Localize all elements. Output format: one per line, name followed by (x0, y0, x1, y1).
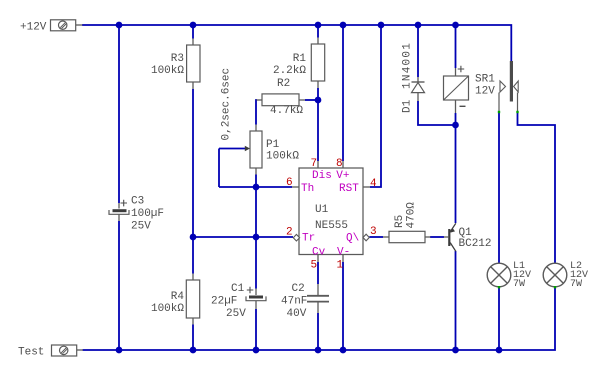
svg-text:C1: C1 (231, 283, 245, 295)
relay SR1 coil (444, 68, 469, 113)
svg-text:1: 1 (337, 260, 344, 272)
terminal +12V (51, 20, 83, 31)
junction Tr net x193 (190, 234, 197, 241)
svg-text:40V: 40V (287, 308, 307, 320)
svg-text:Th: Th (301, 183, 314, 195)
svg-text:+12V: +12V (20, 22, 47, 34)
junction top rail x318 (315, 22, 322, 29)
junction bottom rail x256 (253, 347, 260, 354)
wire RST pin 4 to rail (370, 25, 381, 187)
junction bottom rail x499 (496, 347, 503, 354)
wire R3 top to rail (192, 25, 194, 39)
junction top rail x119 (116, 22, 123, 29)
svg-text:6: 6 (286, 177, 293, 189)
wire R5 to Q1 base (430, 236, 444, 238)
svg-text:25V: 25V (226, 308, 246, 320)
svg-text:D1: D1 (402, 99, 414, 113)
resistor R2 (257, 94, 306, 106)
svg-text:C3: C3 (131, 196, 144, 208)
svg-text:8: 8 (336, 158, 343, 170)
svg-text:U1: U1 (315, 204, 329, 216)
svg-text:Test: Test (18, 347, 44, 359)
wire R4 bottom (192, 325, 194, 351)
svg-text:25V: 25V (131, 221, 151, 233)
svg-text:100kΩ: 100kΩ (266, 151, 299, 163)
svg-text:NE555: NE555 (315, 220, 348, 232)
svg-text:C2: C2 (292, 283, 305, 295)
wire D1 bottom to coil node (418, 101, 456, 125)
wire R2 left to P1 top (256, 100, 257, 125)
svg-text:7W: 7W (570, 279, 582, 290)
wire R4 top (192, 237, 194, 274)
resistor R5 (383, 231, 431, 242)
potentiometer P1 wiper arrow (245, 146, 250, 151)
junction bottom rail x343 (340, 347, 347, 354)
capacitor C1 (electrolytic) (246, 289, 266, 310)
wire left rail lower (C3 to Test rail) (118, 221, 120, 350)
junction top rail x455 (452, 22, 459, 29)
svg-text:BC212: BC212 (459, 238, 492, 250)
wire NC contact to L1 (498, 112, 500, 263)
potentiometer P1 (250, 125, 262, 175)
svg-text:SR1: SR1 (475, 74, 495, 86)
lamp L1 (487, 263, 511, 287)
connection mark left contact (498, 111, 500, 113)
capacitor C1 plus sign (247, 287, 254, 294)
svg-text:Tr: Tr (302, 233, 315, 245)
connection mark right contact (516, 111, 518, 113)
relay coil plus sign (458, 66, 465, 73)
svg-text:0,2sec.6sec: 0,2sec.6sec (221, 68, 233, 141)
wire Th net horizontal (219, 186, 292, 188)
lamp L2 (543, 263, 567, 287)
junction bottom rail x455 (452, 347, 459, 354)
svg-text:R5: R5 (394, 215, 406, 228)
pin 5 stub (317, 255, 319, 263)
transistor Q1 BC212 (444, 223, 456, 251)
svg-text:22µF: 22µF (211, 296, 237, 308)
svg-text:100µF: 100µF (131, 208, 164, 220)
relay contact bar (510, 61, 513, 102)
junction top rail x418 (415, 22, 422, 29)
svg-text:RST: RST (339, 183, 359, 195)
svg-text:47nF: 47nF (281, 296, 307, 308)
wire P1 wiper down (218, 149, 220, 188)
wire P1 wiper horizontal (219, 148, 246, 150)
diode D1 1N4001 (412, 77, 425, 101)
svg-text:2.2kΩ: 2.2kΩ (273, 65, 306, 77)
wire coil top (455, 25, 457, 68)
svg-text:4: 4 (370, 178, 377, 190)
relay contact right triangle (514, 81, 519, 92)
wire R1 bottom to pin 7 (317, 88, 319, 161)
wire Q output to R5 (369, 236, 383, 238)
svg-text:R2: R2 (277, 78, 290, 90)
junction Th net x256 (253, 184, 260, 191)
terminal Test (52, 345, 84, 356)
svg-text:7: 7 (311, 158, 318, 170)
resistor R4 (186, 274, 199, 325)
pin 2 diamond (293, 234, 299, 241)
wire Tr net to C1 (255, 237, 257, 289)
svg-text:100kΩ: 100kΩ (151, 303, 184, 315)
relay contact right lead (517, 93, 519, 112)
junction R2-R1 node (315, 97, 322, 104)
svg-text:R3: R3 (171, 53, 184, 65)
connection mark L1 (498, 286, 500, 288)
wire C1 bottom (255, 309, 257, 350)
relay contact left lead (498, 93, 500, 112)
svg-text:3: 3 (370, 226, 377, 238)
pin 3 diamond (363, 234, 369, 241)
wire Tr net horizontal (193, 236, 293, 238)
svg-text:Q\: Q\ (346, 233, 359, 245)
junction top rail x343 (340, 22, 347, 29)
wire Q1 collector down (455, 251, 457, 350)
junction Tr net x256 (253, 234, 260, 241)
wire C2 bottom (317, 313, 319, 350)
resistor R1 (311, 38, 324, 89)
svg-text:Cv: Cv (312, 247, 326, 259)
svg-text:2: 2 (286, 227, 293, 239)
IC U1 NE555 body (299, 168, 363, 255)
svg-text:V+: V+ (336, 170, 349, 182)
svg-text:P1: P1 (266, 139, 280, 151)
wire R3 bottom to Tr net (192, 89, 194, 237)
pin 1 stub (342, 255, 344, 263)
wire NO contact to L2 (518, 112, 556, 263)
wire coil bottom to Q1 emitter (455, 113, 457, 223)
pin 7 stub (317, 161, 319, 168)
svg-text:470Ω: 470Ω (406, 202, 418, 229)
junction top rail x193 (190, 22, 197, 29)
wire P1 bottom to Th net (255, 175, 257, 188)
svg-text:R1: R1 (293, 53, 307, 65)
svg-text:R4: R4 (171, 291, 185, 303)
capacitor C3 plus sign (121, 200, 128, 207)
pin 6 stub (292, 186, 299, 188)
junction bottom rail x318 (315, 347, 322, 354)
capacitor C2 (film) (307, 284, 329, 313)
svg-text:100kΩ: 100kΩ (151, 65, 184, 77)
relay contact left triangle (500, 81, 506, 92)
wire R2 right to R1 column (305, 99, 318, 101)
wire Th to Tr link (255, 187, 257, 237)
svg-text:12V: 12V (475, 86, 495, 98)
junction bottom rail x119 (116, 347, 123, 354)
wire +12V top rail (82, 25, 511, 61)
svg-text:1N4001: 1N4001 (402, 42, 414, 89)
svg-text:Dis: Dis (312, 170, 332, 182)
wire pin 8 to rail (342, 25, 344, 161)
junction D1-coil node (452, 122, 459, 129)
junction top rail x381 (378, 22, 385, 29)
wire L1 bottom (498, 287, 500, 350)
pin 4 stub (363, 186, 370, 188)
wire left rail upper (to C3) (118, 25, 120, 203)
junction bottom rail x193 (190, 347, 197, 354)
connection mark L2 (554, 286, 556, 288)
wire Test bottom rail (83, 287, 556, 350)
wire D1 top (417, 25, 419, 77)
wire R1 top to rail (317, 25, 319, 38)
svg-text:7W: 7W (513, 279, 525, 290)
svg-text:4.7kΩ: 4.7kΩ (270, 105, 303, 117)
resistor R3 (187, 39, 200, 90)
pin 8 stub (342, 161, 344, 168)
svg-text:V-: V- (337, 247, 350, 259)
svg-text:5: 5 (311, 260, 318, 272)
wire pin 1 to bottom rail (342, 262, 344, 350)
capacitor C3 (electrolytic) (109, 203, 129, 221)
relay coil minus sign (460, 105, 466, 107)
wire pin 5 to C2 (317, 262, 319, 284)
